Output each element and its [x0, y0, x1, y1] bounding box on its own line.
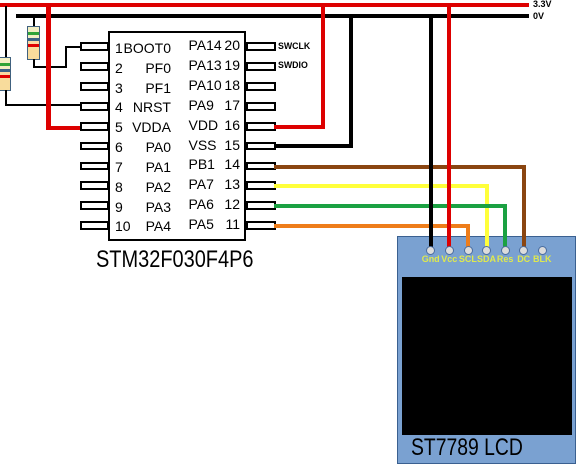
- LCD pad label Gnd: [416, 254, 446, 264]
- pin number 11 label: [0, 216, 240, 232]
- pin 5 stub (left): [80, 122, 109, 131]
- wire R1 to pin 4 NRST (horizontal): [5, 104, 80, 106]
- wire R2 top lead to 0V rail: [33, 17, 35, 27]
- wire R1 bottom lead (vertical): [5, 90, 7, 105]
- LCD pad SDA: [482, 246, 491, 255]
- pin 1 name BOOT0: [0, 40, 171, 56]
- LCD pad Vcc: [445, 246, 454, 255]
- wire 3.3V rail down to LCD Vcc (red vertical): [447, 5, 451, 252]
- wire PA6->Res (green vertical): [503, 204, 507, 252]
- pin 18 stub (right): [246, 82, 276, 91]
- LCD pad label Res: [490, 254, 520, 264]
- pin 12 name PA6: [189, 196, 214, 212]
- net label 0V: [533, 11, 544, 21]
- LCD pad label SDA: [472, 254, 502, 264]
- pin number 6 label: [115, 139, 123, 155]
- wire 3.3V drop to VDDA (red vertical): [46, 5, 51, 130]
- wire VSS up to 0V rail (black vertical): [349, 16, 353, 148]
- LCD pad label BLK: [527, 254, 557, 264]
- LCD pad SCL: [464, 246, 473, 255]
- pin 2 name PF0: [0, 60, 171, 76]
- pin 17 stub (right): [246, 102, 276, 111]
- pin 8 stub (left): [80, 181, 109, 190]
- wire 3.3V rail (red, horizontal top): [0, 3, 529, 7]
- pin 4 name NRST: [0, 99, 171, 115]
- pin 1 stub (left): [80, 42, 109, 51]
- wire R2 to node (horizontal jog): [33, 66, 67, 68]
- pin number 1 label: [115, 40, 123, 56]
- pin number 20 label: [0, 37, 240, 53]
- pin 11 name PA5: [189, 216, 214, 232]
- IC U1 value label STM32F030F4P6: [96, 246, 253, 274]
- wire 0V rail (black, horizontal top): [16, 14, 529, 18]
- pin 14 stub (right): [246, 162, 276, 171]
- pin number 19 label: [0, 57, 240, 73]
- pin 15 name VSS: [189, 137, 217, 153]
- pin 3 name PF1: [0, 80, 171, 96]
- LCD value label ST7789 LCD: [411, 434, 523, 462]
- LCD pad Gnd: [426, 246, 435, 255]
- pin 20 name PA14: [189, 37, 222, 53]
- LCD module ST7789 board: [397, 236, 576, 464]
- pin 12 stub (right): [246, 201, 276, 210]
- pin number 7 label: [115, 159, 123, 175]
- resistor R1 (pull-up on NRST): [0, 57, 11, 91]
- wire PA6->Res (green horizontal): [274, 204, 507, 208]
- wire jog up to pin 1 row: [65, 46, 67, 68]
- wire PA7->SDA (yellow horizontal): [274, 184, 489, 188]
- wire R2 bottom lead (vertical): [33, 59, 35, 68]
- pin 9 stub (left): [80, 201, 109, 210]
- pin 11 stub (right): [246, 221, 276, 230]
- LCD pad DC: [519, 246, 528, 255]
- wire red to pin 5 VDDA (horizontal): [46, 126, 81, 131]
- pin number 10 label: [115, 218, 131, 234]
- pin number 13 label: [0, 176, 240, 192]
- net label SWDIO (pin 19): [278, 60, 308, 70]
- pin 10 name PA4: [0, 218, 171, 234]
- pin number 5 label: [115, 119, 123, 135]
- pin 16 stub (right): [246, 122, 276, 131]
- wire PB1->DC (brown vertical): [522, 165, 526, 252]
- pin 4 stub (left): [80, 102, 109, 111]
- wire PA5->SCL (orange horizontal): [274, 224, 470, 228]
- pin 15 stub (right): [246, 142, 276, 151]
- net label SWCLK (pin 20): [278, 41, 310, 51]
- pin number 14 label: [0, 156, 240, 172]
- resistor R2 (pull-down on BOOT0): [27, 26, 40, 60]
- op-amp/IC U1 STM32F030F4P6 body: [108, 31, 246, 242]
- pin 8 name PA2: [0, 179, 171, 195]
- pin number 12 label: [0, 196, 240, 212]
- wire PA5->SCL (orange vertical): [466, 224, 470, 252]
- wire R1 top lead to 3.3V rail: [5, 6, 7, 58]
- LCD pad Res: [501, 246, 510, 255]
- pin number 17 label: [0, 97, 240, 113]
- LCD screen (black display area): [402, 277, 572, 435]
- pin 10 stub (left): [80, 221, 109, 230]
- pin 13 name PA7: [189, 176, 214, 192]
- wire VDD pin16 (red horizontal): [274, 125, 325, 129]
- pin 3 stub (left): [80, 82, 109, 91]
- wire 0V rail down to LCD Gnd (black vertical): [429, 16, 433, 252]
- pin 17 name PA9: [189, 97, 214, 113]
- pin 16 name VDD: [189, 117, 219, 133]
- pin 7 name PA1: [0, 159, 171, 175]
- pin 2 stub (left): [80, 62, 109, 71]
- wire VSS pin15 (black horizontal): [274, 144, 353, 148]
- wire to pin 1 BOOT0: [65, 46, 81, 48]
- pin 14 name PB1: [189, 156, 215, 172]
- pin number 4 label: [115, 99, 123, 115]
- pin 9 name PA3: [0, 199, 171, 215]
- pin number 15 label: [0, 137, 240, 153]
- pin 6 stub (left): [80, 142, 109, 151]
- pin 7 stub (left): [80, 162, 109, 171]
- wire PA7->SDA (yellow vertical): [485, 184, 489, 252]
- pin 13 stub (right): [246, 181, 276, 190]
- pin number 18 label: [0, 77, 240, 93]
- pin number 16 label: [0, 117, 240, 133]
- LCD pad label SCL: [453, 254, 483, 264]
- pin 5 name VDDA: [0, 119, 171, 135]
- LCD pad BLK: [538, 246, 547, 255]
- wire PB1->DC (brown horizontal): [274, 165, 526, 169]
- wire VDD up to 3.3V rail (red vertical): [321, 5, 325, 129]
- pin 18 name PA10: [189, 77, 222, 93]
- pin number 2 label: [115, 60, 123, 76]
- pin 19 name PA13: [189, 57, 222, 73]
- pin 19 stub (right): [246, 62, 276, 71]
- net label 3.3V: [533, 0, 552, 9]
- pin number 3 label: [115, 80, 123, 96]
- LCD pad label DC: [509, 254, 539, 264]
- pin 6 name PA0: [0, 139, 171, 155]
- LCD pad label Vcc: [434, 254, 464, 264]
- pin number 8 label: [115, 179, 123, 195]
- pin 20 stub (right): [246, 42, 276, 51]
- pin number 9 label: [115, 199, 123, 215]
